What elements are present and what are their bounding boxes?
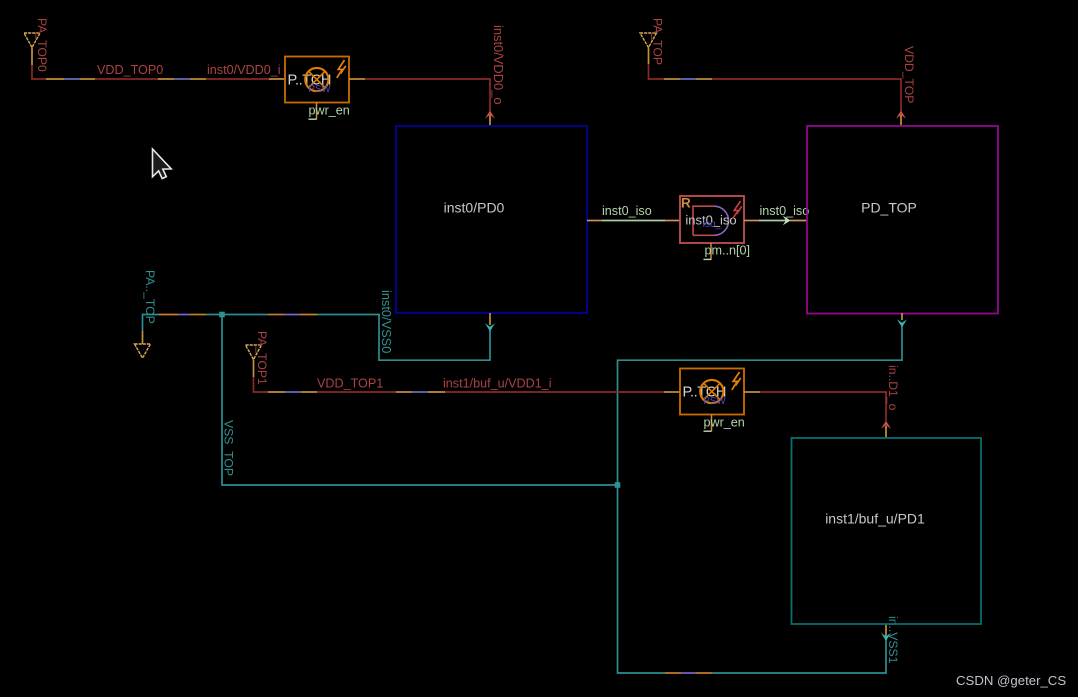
arrow inst0_iso into PD_TOP [783,216,791,225]
wire VDD_TOP [648,48,902,127]
power switch U1 P..TCH [285,57,349,120]
module PD_TOP [807,126,998,314]
arrow out of inst1 bottom [881,633,891,641]
svg-text:VDD_TOP1: VDD_TOP1 [317,377,383,391]
junction on PA.._TOP net [219,312,225,318]
svg-text:PA_TOP0: PA_TOP0 [35,18,49,72]
module inst0/PD0 [396,126,587,313]
port PA.._TOP (vss) [135,270,157,358]
wire VDD_TOP0 [31,48,285,80]
svg-text:inst0/PD0: inst0/PD0 [444,200,505,216]
svg-text:PSW: PSW [703,396,726,407]
arrow into PD_TOP top [896,110,906,118]
mouse cursor [153,149,172,179]
svg-text:PD_TOP: PD_TOP [861,200,917,216]
svg-text:PA_TOP: PA_TOP [651,18,665,65]
svg-text:R: R [681,196,691,211]
svg-text:inst0_iso: inst0_iso [602,204,652,218]
wire VSS_TOP [222,313,903,674]
wire inst0_iso left [587,220,680,222]
arrow out of PD_TOP bottom [897,319,907,327]
port PA_TOP (top right) [640,18,665,65]
pin tick pwr_en [309,118,317,120]
wire inst0/VSS0 [143,313,491,361]
arrow into inst0/PD0 top [485,110,495,118]
wire inst0_iso right [744,220,807,222]
pin tick pm..n[0] [704,258,712,260]
wire VDD_TOP1 [253,360,680,393]
svg-text:in..D1_o: in..D1_o [886,365,900,411]
pin tick pwr_en 2 [704,430,712,432]
svg-text:VDD_TOP: VDD_TOP [902,46,916,103]
svg-text:pwr_en: pwr_en [704,416,745,430]
svg-text:inst0_iso: inst0_iso [760,204,810,218]
svg-text:PA_TOP1: PA_TOP1 [255,331,269,385]
power switch U3 P..TCH [680,369,744,432]
junction on VSS_TOP net [615,482,621,488]
svg-text:CSDN @geter_CS: CSDN @geter_CS [956,673,1066,688]
svg-text:inst0/VDD0_o: inst0/VDD0_o [491,25,506,105]
wire inst0/VDD0_o [349,79,491,126]
svg-text:pwr_en: pwr_en [309,104,350,118]
svg-text:inst0/VDD0_i: inst0/VDD0_i [207,63,281,77]
svg-text:PA.._TOP: PA.._TOP [143,270,157,324]
arrow out of inst0/PD0 bottom [485,323,495,331]
iso cell U2 [680,196,744,261]
svg-text:inst1/buf_u/PD1: inst1/buf_u/PD1 [825,511,925,527]
svg-text:iso_: iso_ [703,219,722,230]
svg-text:inst1/buf_u/VDD1_i: inst1/buf_u/VDD1_i [443,377,552,391]
wire in..D1 [744,392,887,438]
port PA_TOP0 [24,18,49,72]
svg-text:VDD_TOP0: VDD_TOP0 [97,63,163,77]
svg-text:VSS_TOP: VSS_TOP [222,420,236,476]
arrow into inst1 top [881,421,891,429]
svg-text:inst0/VSS0: inst0/VSS0 [379,290,394,353]
svg-text:PSW: PSW [308,84,331,95]
port PA_TOP1 [246,331,270,385]
svg-text:pm..n[0]: pm..n[0] [705,244,751,258]
module inst1/buf_u/PD1 [792,438,982,624]
